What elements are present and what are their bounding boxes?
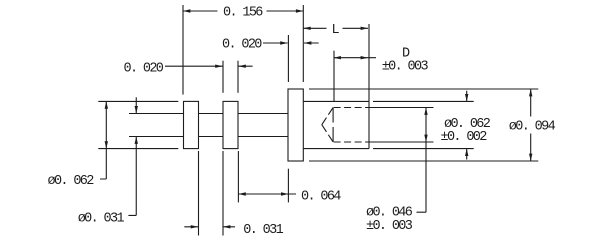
svg-text:ø0. 062: ø0. 062 bbox=[48, 174, 95, 189]
tail shaft upper line bbox=[129, 113, 288, 115]
svg-text:±0. 003: ±0. 003 bbox=[382, 59, 429, 74]
arrowhead dia 0.062 left up bbox=[105, 101, 108, 108]
extension line D left bbox=[333, 51, 335, 102]
svg-text:±0. 003: ±0. 003 bbox=[366, 219, 413, 234]
svg-text:0. 020: 0. 020 bbox=[124, 61, 164, 76]
svg-text:±0. 002: ±0. 002 bbox=[441, 130, 488, 145]
svg-text:0. 156: 0. 156 bbox=[223, 6, 263, 21]
extension line flange2 left top bbox=[222, 61, 224, 93]
tail shaft lower line bbox=[129, 136, 288, 138]
dim line 0.020 top bbox=[263, 42, 319, 44]
dia 0.062 right upper arrow tail bbox=[466, 91, 468, 102]
bore lower solid line bbox=[369, 141, 434, 143]
arrowhead L right bbox=[361, 27, 368, 30]
dim line dia 0.031 left upper arrow tail bbox=[135, 97, 137, 113]
flange 2 bbox=[223, 101, 238, 148]
bore step vertical bbox=[368, 24, 370, 149]
extension line 0.156 left bbox=[182, 5, 184, 95]
svg-text:0. 031: 0. 031 bbox=[243, 223, 283, 238]
arrowhead D right bbox=[361, 56, 368, 59]
arrowhead dia 0.031 up bbox=[135, 137, 138, 144]
dim line dia 0.031 left with leader bbox=[128, 137, 136, 216]
barrel upper line bbox=[303, 100, 473, 102]
arrowhead 0.020 top right bbox=[304, 41, 311, 44]
arrowhead dia 0.094 up bbox=[529, 89, 532, 96]
arrowhead dia 0.094 down bbox=[529, 154, 532, 161]
extension line 0.156 right / L left bbox=[302, 5, 304, 82]
dia 0.062 right lower arrow tail bbox=[466, 149, 468, 160]
dia 0.062 left top extension bbox=[98, 100, 178, 102]
drill point base vertical bbox=[332, 108, 334, 143]
arrowhead dia 0.062 right down bbox=[465, 94, 468, 101]
extension line flange1 right bottom bbox=[198, 151, 200, 236]
arrowhead 0.020 top left bbox=[280, 41, 287, 44]
dim line dia 0.046 with leader bbox=[417, 108, 427, 213]
arrowhead dia 0.046 down bbox=[424, 135, 427, 142]
bore upper solid line bbox=[369, 107, 434, 109]
extension line flange2 left bottom bbox=[222, 151, 224, 236]
dim line dia 0.094 upper bbox=[530, 89, 532, 117]
dim line D bbox=[334, 57, 377, 59]
drill point cone bbox=[322, 108, 333, 143]
bore upper hidden line bbox=[334, 107, 369, 109]
arrowhead 0.156 right bbox=[296, 9, 303, 12]
extension line shoulder left bottom bbox=[287, 169, 289, 203]
arrowhead dia 0.046 up bbox=[424, 108, 427, 115]
arrowhead 0.020 left a bbox=[215, 65, 222, 68]
arrowhead 0.031 bottom right bbox=[223, 225, 230, 228]
dim line dia 0.062 left with leader bbox=[100, 101, 106, 179]
extension line flange2 right top bbox=[237, 61, 239, 93]
dim line dia 0.094 lower bbox=[530, 134, 532, 162]
svg-text:ø0. 031: ø0. 031 bbox=[78, 212, 125, 227]
arrowhead 0.031 bottom left bbox=[191, 225, 198, 228]
arrowhead dia 0.062 left down bbox=[105, 141, 108, 148]
extension line 0.020 top left bbox=[287, 35, 289, 82]
barrel lower line bbox=[303, 148, 473, 150]
svg-text:ø0. 094: ø0. 094 bbox=[509, 120, 556, 135]
arrowhead 0.156 left bbox=[183, 9, 190, 12]
svg-text:0. 064: 0. 064 bbox=[301, 190, 341, 205]
svg-text:0. 020: 0. 020 bbox=[222, 38, 262, 53]
dim line 0.064 bbox=[238, 193, 296, 195]
bore lower hidden line bbox=[334, 141, 369, 143]
shoulder flange bbox=[288, 89, 303, 161]
arrowhead D left bbox=[334, 56, 341, 59]
dim line 0.031 bottom bbox=[184, 226, 235, 228]
arrowhead 0.064 left bbox=[238, 192, 245, 195]
extension line flange2 right bottom bbox=[237, 151, 239, 202]
dim line L bbox=[303, 27, 368, 29]
dia 0.062 left bottom extension bbox=[98, 148, 178, 150]
dim line 0.156 bbox=[183, 10, 303, 12]
arrowhead L left bbox=[303, 27, 310, 30]
dim line 0.020 left bbox=[165, 65, 253, 67]
dia 0.094 bottom extension line bbox=[309, 160, 538, 162]
dia 0.094 top extension line bbox=[309, 88, 538, 90]
arrowhead dia 0.031 down bbox=[135, 106, 138, 113]
flange 1 bbox=[184, 101, 199, 148]
arrowhead dia 0.062 right up bbox=[465, 149, 468, 156]
arrowhead 0.064 right bbox=[281, 192, 288, 195]
arrowhead 0.020 left b bbox=[238, 65, 245, 68]
svg-text:L: L bbox=[332, 23, 340, 38]
